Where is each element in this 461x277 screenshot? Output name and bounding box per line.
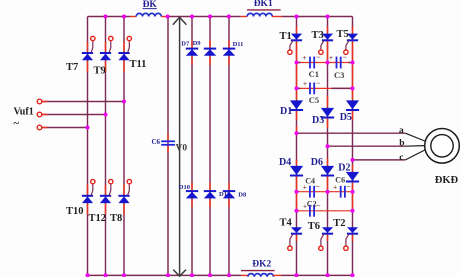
wire input phase 3 — [42, 127, 87, 129]
wire top bus red lead into DK1 coil — [241, 16, 248, 18]
svg-text:T4: T4 — [280, 218, 293, 229]
wire input phase 3 red stub — [42, 127, 47, 129]
thyristor T7 — [82, 36, 95, 60]
wire red segment leg3 above D5 — [352, 88, 354, 99]
wire bottom bus red lead into DK2 coil — [241, 274, 248, 276]
junction dots cap row 4 — [295, 209, 355, 213]
wire red segment leg1 above D4 — [296, 126, 298, 132]
wire red segment leg1 row3-row4 — [296, 192, 298, 211]
diode D2 — [346, 172, 359, 182]
wire input phase 1 red stub — [42, 101, 47, 103]
svg-text:Vuf1: Vuf1 — [14, 107, 34, 118]
wire cap row 1 (C1 C3) — [297, 62, 353, 64]
thyristor T11 — [118, 36, 131, 60]
wire input phase 1 — [42, 101, 124, 103]
wire inverter leg 3 (T5/T2) — [352, 17, 354, 276]
svg-text:T1: T1 — [280, 31, 292, 42]
motor DKD inner circle — [431, 135, 453, 157]
wire inverter leg 2 (T3/T6) — [327, 17, 329, 276]
svg-text:−: − — [346, 182, 350, 191]
wire output phase c — [353, 159, 406, 161]
input terminal phase 1 — [37, 99, 42, 104]
input terminal phase 3 — [37, 125, 42, 130]
wire diode leg D9/D12 — [209, 17, 211, 276]
junction dots cap row 1 — [295, 61, 355, 65]
svg-text:~: ~ — [14, 119, 20, 130]
thyristor T2 — [344, 227, 358, 250]
wire diode leg D11/D8 — [228, 17, 230, 276]
svg-text:D8: D8 — [238, 192, 247, 199]
svg-text:T11: T11 — [130, 59, 147, 70]
svg-text:D11: D11 — [233, 41, 244, 48]
wire rectifier leg 1 (T7/T10) — [87, 17, 89, 276]
capacitor C4 — [310, 186, 314, 198]
svg-text:T10: T10 — [66, 206, 84, 217]
wire red segment leg3 row1-row2 — [352, 63, 354, 89]
wire output phase b — [328, 145, 406, 147]
svg-text:T7: T7 — [66, 62, 78, 73]
wire red segment leg3 below D2 — [352, 182, 354, 192]
thyristor T8 — [118, 179, 131, 203]
wire bottom DC bus left section — [88, 274, 242, 276]
svg-text:ĐK2: ĐK2 — [252, 259, 271, 269]
wire input phase 2 — [42, 114, 105, 116]
wire red segment leg2 below D6 — [327, 176, 329, 192]
svg-text:D6: D6 — [311, 157, 323, 168]
wire red segment leg2 above D3 — [327, 96, 329, 107]
diode D9 — [204, 49, 216, 56]
wire red segments around C6 filter cap — [167, 134, 169, 153]
svg-text:C4: C4 — [305, 176, 315, 185]
wire filter capacitor branch — [167, 17, 169, 276]
svg-text:C6: C6 — [335, 176, 345, 185]
svg-text:D4: D4 — [279, 157, 291, 168]
wire motor lead a — [405, 133, 424, 141]
capacitor C2 — [310, 205, 314, 217]
wire red segment leg3 above D2 — [352, 165, 354, 172]
junction dots input taps — [86, 100, 127, 130]
capacitor C1 — [310, 57, 314, 69]
wire top DC bus right section — [282, 16, 353, 18]
junction dots bottom bus — [86, 273, 355, 277]
wire red segment leg1 D4 zone — [296, 160, 298, 166]
diode D1 — [290, 100, 303, 110]
svg-text:T3: T3 — [312, 30, 324, 41]
wire top bus red lead out of DK1 coil — [272, 16, 282, 18]
junction dots output taps — [295, 131, 355, 162]
motor DKD outer circle — [425, 129, 460, 164]
thyristor T1 — [288, 34, 302, 55]
thyristor T4 — [288, 227, 302, 250]
wire red segments around left thyristors — [88, 42, 125, 215]
svg-text:b: b — [399, 138, 404, 148]
svg-text:D9: D9 — [193, 40, 202, 47]
svg-text:C2: C2 — [307, 199, 317, 208]
svg-text:T5: T5 — [337, 29, 349, 40]
svg-text:c: c — [399, 153, 403, 163]
svg-text:ĐK1: ĐK1 — [254, 0, 273, 9]
junction dots top bus — [104, 15, 330, 19]
svg-text:C6: C6 — [152, 138, 161, 146]
diode D3 — [321, 108, 334, 118]
svg-text:ĐKĐ: ĐKĐ — [435, 175, 459, 186]
inductor DK1 core bar — [247, 9, 281, 11]
capacitor C6 — [341, 186, 345, 198]
svg-text:D7: D7 — [181, 41, 190, 48]
capacitor C6 filter — [161, 141, 175, 145]
svg-text:T6: T6 — [308, 221, 320, 232]
svg-text:a: a — [399, 126, 404, 136]
wire top bus red lead out of DK coil — [161, 16, 167, 18]
wire bottom bus red lead out of DK2 coil — [273, 274, 281, 276]
wire motor lead b — [405, 145, 424, 148]
thyristor T12 — [100, 179, 113, 203]
diode D10 — [186, 191, 198, 198]
wire diode leg D7/D10 — [191, 17, 193, 276]
junction dots cap row 3 — [295, 190, 355, 194]
wire red segment leg2 below D3 — [327, 118, 329, 128]
wire cap row 2 maroon ends — [297, 87, 353, 89]
wire motor lead c — [405, 150, 424, 160]
diode D11 — [223, 49, 235, 56]
capacitor C5 — [310, 83, 314, 95]
svg-text:ĐK: ĐK — [143, 0, 158, 10]
wire red segments on inverter legs — [297, 27, 353, 242]
wire cap row 3 (C4 C6) — [297, 191, 353, 193]
wire red segment leg3 row3-row4 — [352, 192, 354, 211]
thyristor T5 — [344, 34, 358, 55]
wire rectifier leg 2 (T9/T12) — [105, 17, 107, 276]
junction dots cap row 2 — [295, 86, 355, 90]
svg-text:D10: D10 — [179, 184, 190, 191]
inductor DK1 coil — [247, 13, 272, 16]
svg-text:−: − — [315, 182, 319, 191]
wire red segment leg2 above D6 — [327, 158, 329, 165]
svg-text:D5: D5 — [340, 112, 352, 123]
wire cap row 2 (C5) — [297, 87, 353, 89]
thyristor T6 — [319, 227, 333, 250]
wire rectifier leg 3 (T11/T8) — [123, 17, 125, 276]
diode D5 — [346, 100, 359, 110]
diode D7 — [186, 49, 198, 56]
wire cap row 1 maroon ends — [297, 62, 353, 64]
diode D12 — [204, 191, 216, 198]
inductor DK2 core bar — [241, 270, 275, 272]
svg-text:T12: T12 — [89, 213, 107, 224]
voltage arrow V0 — [173, 17, 187, 276]
thyristor T9 — [100, 36, 113, 60]
inductor DK2 coil — [248, 274, 274, 277]
wire cap row 4 (C2) — [297, 210, 353, 212]
wire top DC bus left section — [88, 16, 131, 18]
svg-text:V0: V0 — [176, 144, 188, 154]
svg-text:D1: D1 — [280, 106, 292, 117]
inductor DK coil — [136, 13, 161, 16]
wire inverter leg 1 (T1/T4) — [296, 17, 298, 276]
svg-text:+: + — [302, 53, 306, 62]
wire red segments around middle diodes — [192, 41, 229, 208]
wire top bus red lead into DK coil — [130, 16, 136, 18]
capacitor C3 — [337, 57, 341, 69]
svg-text:D3: D3 — [312, 115, 324, 126]
thyristor T10 — [82, 179, 95, 203]
thyristor T3 — [319, 34, 333, 55]
svg-text:D2: D2 — [338, 163, 350, 174]
svg-text:T9: T9 — [94, 66, 106, 77]
svg-text:C3: C3 — [334, 70, 344, 80]
svg-text:T8: T8 — [110, 213, 122, 224]
svg-text:−: − — [316, 79, 320, 88]
svg-text:+: + — [329, 53, 333, 62]
svg-text:C1: C1 — [309, 69, 319, 79]
svg-text:C5: C5 — [309, 95, 319, 105]
diode D4 — [290, 166, 303, 176]
wire bottom DC bus right section — [281, 274, 353, 276]
svg-text:T2: T2 — [333, 218, 345, 229]
wire red segment leg1 row1-row2 — [296, 63, 298, 89]
wire input phase 2 red stub — [42, 114, 47, 116]
wire output phase a — [297, 132, 406, 134]
svg-text:+: + — [303, 79, 307, 88]
input terminal phase 2 — [37, 112, 42, 117]
wire red segment leg1 below D4 — [296, 176, 298, 192]
wire top DC bus middle section — [168, 16, 241, 18]
wire red segment leg1 above D1 — [296, 88, 298, 99]
wire red segment leg3 below D5 — [352, 111, 354, 120]
diode D6 — [321, 166, 334, 176]
wire red segment leg1 below D1 — [296, 111, 298, 120]
svg-text:−: − — [316, 201, 320, 210]
diode D8 — [223, 191, 235, 198]
